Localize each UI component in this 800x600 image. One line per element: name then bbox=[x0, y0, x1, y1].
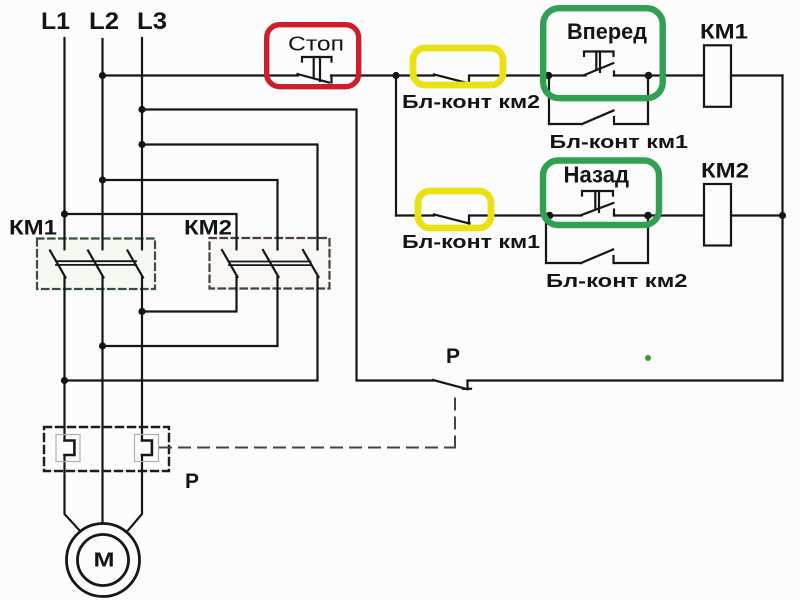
svg-text:КМ2: КМ2 bbox=[184, 217, 232, 240]
contactor KM2 main contacts box bbox=[210, 238, 330, 289]
svg-text:Р: Р bbox=[446, 345, 460, 368]
svg-text:Бл-конт км2: Бл-конт км2 bbox=[546, 271, 688, 291]
svg-text:Бл-конт км1: Бл-конт км1 bbox=[402, 232, 540, 252]
highlight box green (forward button) bbox=[543, 8, 663, 98]
svg-text:Стоп: Стоп bbox=[288, 34, 344, 56]
junction dot L3 feeder KM2 bbox=[138, 141, 145, 148]
svg-text:Назад: Назад bbox=[564, 162, 630, 188]
svg-text:КМ1: КМ1 bbox=[700, 21, 748, 44]
svg-text:L1: L1 bbox=[41, 8, 70, 35]
wire L2 phase line bbox=[101, 39, 103, 524]
svg-text:КМ1: КМ1 bbox=[9, 217, 57, 240]
contactor KM2 main contact blades bbox=[222, 238, 319, 289]
wire KM2 output 3 to L1 bbox=[65, 289, 318, 381]
svg-text:М: М bbox=[94, 548, 115, 571]
NC aux contact Бл-конт КМ2 (rung 1) bbox=[434, 75, 470, 84]
wire L2 to stop button bbox=[103, 74, 299, 76]
junction dot reverse right terminal bbox=[644, 212, 652, 220]
junction dot forward right terminal bbox=[645, 72, 653, 80]
highlight box red (stop button) bbox=[267, 25, 359, 87]
wire stop button to node A bbox=[331, 74, 434, 76]
NC thermal contact P bbox=[433, 380, 471, 389]
coil KM2 bbox=[704, 184, 731, 246]
wire reverse button to coil KM2 bbox=[647, 214, 704, 216]
junction dot L1 feeder KM2 bbox=[61, 210, 68, 217]
contactor KM2 linkage double bar bbox=[229, 262, 311, 266]
NO aux contact Бл-конт КМ1 (holding, rung 1) bbox=[549, 76, 648, 125]
pushbutton Назад (NO reverse button) bbox=[581, 191, 647, 216]
svg-text:Бл-конт км1: Бл-конт км1 bbox=[550, 132, 689, 152]
wire KM2 output 1 to L3 bbox=[142, 289, 237, 312]
wire L3 to KM2 contact 3 bbox=[142, 145, 318, 250]
junction dot KM2 out3 on L1 bbox=[61, 377, 68, 384]
wire L3 return line to bottom bbox=[142, 110, 433, 381]
contactor KM1 main contact blades bbox=[50, 239, 143, 290]
wire L2 to KM2 contact 2 bbox=[103, 180, 278, 249]
junction dot KM2 out2 on L2 bbox=[99, 342, 106, 349]
coil KM1 bbox=[704, 45, 731, 107]
node green dot marker bbox=[645, 355, 651, 361]
contactor KM1 main contacts box bbox=[37, 239, 155, 290]
junction dot L2 feeder KM2 bbox=[99, 176, 106, 183]
wire L3 lower segment to motor bbox=[128, 455, 143, 531]
contactor KM1 linkage double bar bbox=[56, 261, 136, 265]
highlight box yellow (rung2 NC contact) bbox=[418, 191, 491, 228]
svg-text:L3: L3 bbox=[137, 8, 167, 35]
NO aux contact Бл-конт КМ2 (holding, rung 2) bbox=[546, 216, 648, 264]
wire L3 phase line bbox=[141, 38, 143, 441]
wire contact to reverse button bbox=[470, 214, 582, 216]
junction dot reverse left terminal bbox=[546, 212, 554, 220]
junction dot right rail rung 2 bbox=[779, 212, 786, 219]
highlight box yellow (rung1 NC contact) bbox=[413, 48, 503, 85]
wire right rail bbox=[781, 76, 783, 381]
wire L1 to KM2 contact 1 bbox=[65, 214, 237, 249]
pushbutton Вперед (NO forward button) bbox=[584, 52, 648, 76]
thermal relay heater element 1 (L1) bbox=[56, 435, 80, 462]
NC aux contact Бл-конт КМ1 (rung 2) bbox=[396, 215, 470, 224]
svg-text:КМ2: КМ2 bbox=[701, 160, 749, 183]
junction dot node A bbox=[392, 72, 399, 79]
thermal relay P box bbox=[44, 427, 169, 471]
svg-text:Бл-конт км2: Бл-конт км2 bbox=[402, 92, 540, 112]
wire forward button to coil KM1 bbox=[648, 74, 704, 76]
junction dot on L2 control tap bbox=[99, 72, 106, 79]
dashed mechanical linkage P bbox=[160, 392, 455, 448]
junction dot KM2 out1 on L3 bbox=[138, 308, 145, 315]
wire L1 lower segment to motor bbox=[65, 455, 81, 532]
pushbutton SB1 Стоп (NC stop button) bbox=[298, 57, 332, 83]
wire node A down to rung 2 bbox=[395, 76, 397, 216]
svg-text:Вперед: Вперед bbox=[567, 19, 647, 44]
wire coil KM1 to right rail bbox=[731, 74, 783, 76]
junction dot forward left terminal bbox=[545, 72, 553, 80]
motor M bbox=[67, 524, 140, 597]
wire KM2 output 2 to L2 bbox=[103, 289, 278, 347]
thermal relay heater element 2 (L3) bbox=[135, 435, 159, 462]
wire coil KM2 to right rail bbox=[731, 214, 783, 216]
wire L1 phase line bbox=[63, 38, 65, 441]
wire P contact to right rail bbox=[468, 379, 783, 381]
svg-text:Р: Р bbox=[185, 470, 199, 493]
junction dot L3 return tap bbox=[138, 106, 145, 113]
wire contact to forward button bbox=[471, 74, 586, 76]
highlight box green (reverse button) bbox=[543, 161, 659, 226]
svg-text:L2: L2 bbox=[89, 8, 119, 35]
